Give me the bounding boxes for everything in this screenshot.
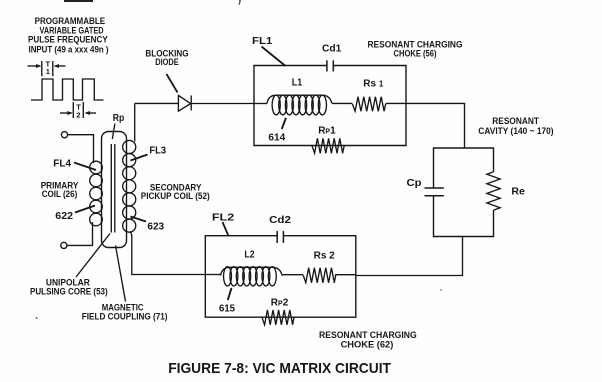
svg-text:622: 622 (55, 211, 73, 222)
T2 left arrow (60, 111, 73, 115)
label secondary pickup coil (141, 183, 210, 201)
T2 dimension ticks (73, 102, 83, 118)
label Rs1 (363, 79, 384, 90)
label FL4 (53, 159, 71, 170)
pointer 614 (282, 118, 286, 129)
scan speckle dot (440, 289, 442, 291)
svg-text:RP2: RP2 (271, 298, 289, 309)
svg-text:RESONANT CHARGING: RESONANT CHARGING (319, 330, 417, 340)
pointer unipolar pulsing core (76, 234, 110, 278)
label resonant charging choke 56 (368, 40, 463, 59)
FL2 choke box (205, 236, 355, 318)
svg-text:PULSING CORE (53): PULSING CORE (53) (30, 287, 108, 297)
svg-text:CHOKE (56): CHOKE (56) (394, 49, 437, 59)
pulse waveform (31, 79, 104, 100)
label: programmable input text (28, 16, 109, 55)
pointer magnetic field coupling (116, 246, 126, 302)
pointer Rp (112, 124, 115, 140)
label resonant cavity (478, 116, 553, 136)
svg-text:Rp: Rp (113, 113, 125, 124)
wire diode to FL1 (191, 103, 254, 105)
svg-text:RESONANT: RESONANT (492, 116, 539, 126)
svg-text:615: 615 (219, 304, 235, 315)
svg-text:L1: L1 (292, 77, 303, 88)
label primary coil (41, 181, 79, 200)
wire secondary top to diode line (134, 103, 136, 141)
label FL2 (212, 212, 235, 223)
wire top terminal to primary (68, 135, 94, 163)
svg-text:DIODE: DIODE (155, 57, 179, 67)
resistor Rp2 (262, 310, 294, 325)
label: blocking diode (145, 49, 188, 67)
label L2 (244, 250, 255, 261)
capacitor Cp (425, 188, 444, 196)
label Rs2 (314, 251, 335, 262)
label Cd1 (322, 44, 342, 55)
T2 right arrow (85, 111, 97, 115)
resistor Rs2 (303, 268, 336, 283)
svg-text:FIELD COUPLING (71): FIELD COUPLING (71) (82, 312, 168, 322)
svg-text:PULSE FREQUENCY: PULSE FREQUENCY (28, 35, 108, 45)
label T1 (46, 60, 51, 77)
label FL1 (252, 36, 273, 47)
transformer core housing (102, 132, 127, 248)
svg-text:CHOKE (62): CHOKE (62) (341, 340, 394, 350)
core lamination lines (111, 144, 115, 233)
svg-text:Rs1: Rs1 (363, 79, 384, 90)
resonant cavity box (434, 148, 494, 237)
label Rp2 (271, 298, 289, 309)
wire L1 to Rs1 (332, 102, 353, 104)
wire diode line left (135, 102, 179, 104)
label Cd2 (269, 215, 291, 226)
capacitor Cd1 (327, 60, 333, 71)
label 614 (268, 133, 285, 144)
label magnetic field coupling (82, 302, 168, 321)
svg-text:RP1: RP1 (318, 125, 336, 136)
secondary winding FL3 coil (123, 140, 136, 232)
svg-text:FIGURE 7-8: VIC MATRIX CIRCUIT: FIGURE 7-8: VIC MATRIX CIRCUIT (168, 360, 391, 377)
svg-text:Cd1: Cd1 (322, 44, 342, 55)
label T2 (76, 103, 81, 120)
svg-text:Rs2: Rs2 (314, 251, 335, 262)
pointer 623 (131, 217, 147, 222)
label Re (511, 187, 525, 198)
svg-text:INPUT (49 a xxx 49n ): INPUT (49 a xxx 49n ) (29, 44, 109, 54)
inductor L1 (267, 95, 332, 115)
label unipolar pulsing core (30, 278, 108, 297)
svg-text:L2: L2 (244, 250, 255, 261)
svg-text:Re: Re (511, 187, 525, 198)
label 623 (147, 222, 164, 233)
svg-text:614: 614 (268, 133, 285, 144)
svg-text:623: 623 (147, 222, 164, 233)
svg-text:FL3: FL3 (149, 146, 166, 157)
pointer 615 (228, 288, 232, 300)
wire Rs1 to box edge (386, 102, 406, 105)
scan artifact small mark (239, 0, 241, 5)
label Rp1 (318, 125, 336, 136)
T1 left arrow (28, 64, 42, 68)
svg-text:FL1: FL1 (252, 36, 273, 47)
pointer 622 (75, 206, 95, 213)
wire primary bottom to terminal (67, 222, 93, 245)
resistor Rs1 (352, 97, 385, 111)
diode D1 (178, 95, 191, 111)
pointer FL4 (74, 163, 96, 171)
svg-text:FL4: FL4 (53, 159, 71, 170)
svg-text:PICKUP COIL (52): PICKUP COIL (52) (141, 191, 210, 201)
label resonant charging choke 62 (319, 330, 417, 350)
wire cavity bottom to FL2 (356, 237, 463, 276)
wire secondary bottom to FL2 (130, 232, 205, 275)
wire FL1 to cavity (406, 103, 465, 148)
wire into L2 (205, 274, 220, 276)
label 615 (219, 304, 235, 315)
svg-text:2: 2 (76, 110, 80, 119)
label Cp (407, 178, 422, 189)
resistor Rp1 (312, 138, 344, 153)
wire into L1 (254, 103, 267, 105)
pointer FL2 (223, 222, 229, 236)
input terminal top (61, 132, 67, 138)
label Rp (113, 113, 125, 124)
scan speckle dot (36, 317, 38, 319)
pointer FL3 (131, 155, 148, 161)
svg-text:COIL (26): COIL (26) (42, 189, 78, 199)
label L1 (292, 77, 303, 88)
svg-text:Cp: Cp (407, 178, 422, 189)
wire L2 to Rs2 (282, 274, 303, 277)
T1 dimension ticks (42, 61, 53, 76)
input terminal bottom (61, 242, 67, 248)
pointer line blocking diode (167, 74, 178, 93)
svg-text:1: 1 (46, 67, 50, 76)
label 622 (55, 211, 73, 222)
resistor Re (487, 172, 500, 210)
svg-text:Cd2: Cd2 (269, 215, 291, 226)
FL1 choke box (254, 66, 406, 146)
wire Rs2 to box edge (335, 274, 356, 277)
T1 right arrow (54, 64, 66, 68)
label FL3 (149, 146, 166, 157)
scan artifact top bar (64, 0, 93, 2)
inductor L2 (221, 267, 282, 286)
caption figure title (168, 360, 391, 377)
pointer FL1 (262, 47, 286, 67)
capacitor Cd2 (277, 231, 283, 243)
svg-text:CAVITY (140 ~ 170): CAVITY (140 ~ 170) (478, 126, 553, 136)
primary winding FL4 coil (90, 161, 103, 226)
